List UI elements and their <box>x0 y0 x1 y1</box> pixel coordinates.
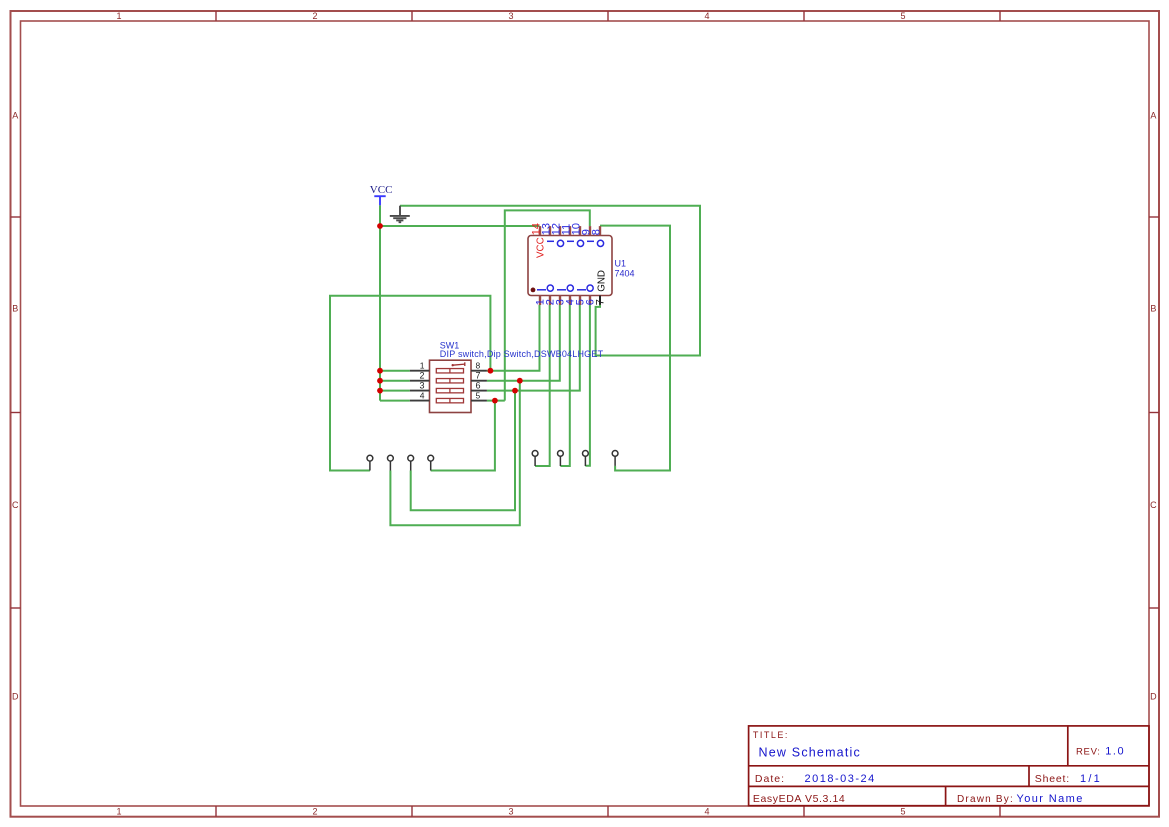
wire U1 pin9 loop to SW1 pin5 <box>505 210 590 400</box>
svg-text:3: 3 <box>508 806 513 816</box>
svg-text:VCC: VCC <box>536 237 547 258</box>
wire VCC to U1 pin14 <box>380 225 540 227</box>
header P3 <box>408 455 414 470</box>
header P8 <box>612 451 618 466</box>
wire header P3 loop to SW1 pin6 junction <box>411 391 515 511</box>
wire SW1 pin5 row <box>487 400 505 402</box>
SW1 right pin stubs <box>471 371 487 401</box>
SW1 switch element 3 <box>436 388 463 392</box>
svg-text:D: D <box>12 692 19 702</box>
frame row ticks right <box>1149 217 1159 608</box>
U1 top inner pin dashes <box>547 240 594 242</box>
svg-text:1: 1 <box>116 806 121 816</box>
svg-text:8: 8 <box>591 229 603 235</box>
svg-text:2: 2 <box>419 371 424 381</box>
wire U1 pin4 to header P6 <box>560 305 569 466</box>
svg-text:2: 2 <box>312 806 317 816</box>
frame row ticks left <box>11 217 21 608</box>
svg-text:C: C <box>12 500 19 510</box>
svg-text:B: B <box>12 304 18 314</box>
U1 pin1 marker dot <box>531 288 536 293</box>
VCC power symbol <box>374 196 385 205</box>
svg-text:1/1: 1/1 <box>1080 773 1102 785</box>
wire VCC vertical bus <box>379 205 381 400</box>
svg-text:3: 3 <box>419 381 424 391</box>
svg-text:U1: U1 <box>615 259 627 269</box>
svg-text:5: 5 <box>900 806 905 816</box>
svg-text:VCC: VCC <box>370 184 393 196</box>
junction dot VCC branch <box>377 223 383 229</box>
header P4 <box>428 455 434 470</box>
ground symbol <box>390 206 410 223</box>
header P5 <box>532 451 538 467</box>
svg-text:2018-03-24: 2018-03-24 <box>805 773 876 785</box>
svg-text:3: 3 <box>508 11 513 21</box>
wire U1 pin6 to header P7 <box>585 305 590 466</box>
wire header P4 to SW1 pin5 junction <box>431 401 495 471</box>
svg-text:GND: GND <box>597 270 608 292</box>
svg-text:B: B <box>1150 304 1156 314</box>
wire SW1 pin6 row to U1 pin5 <box>487 305 580 391</box>
svg-text:TITLE:: TITLE: <box>753 730 789 740</box>
U1 bottom pin stubs <box>540 296 590 306</box>
SW1 switch element 1 <box>436 369 463 373</box>
svg-text:EasyEDA V5.3.14: EasyEDA V5.3.14 <box>753 793 845 805</box>
op-amp U1 body <box>528 236 612 296</box>
svg-text:5: 5 <box>476 391 481 401</box>
frame column numbers bottom <box>116 806 905 816</box>
wire GND net from U1 pin7 to ground <box>400 206 700 356</box>
svg-text:7: 7 <box>476 371 481 381</box>
SW1 switch element 2 <box>436 379 463 383</box>
svg-text:5: 5 <box>900 11 905 21</box>
U1 bottom inverter bubbles <box>547 285 593 291</box>
header P6 <box>558 451 564 467</box>
svg-text:DIP switch,Dip Switch,DSWB04LH: DIP switch,Dip Switch,DSWB04LHGET <box>440 349 604 359</box>
svg-text:C: C <box>1150 500 1157 510</box>
wire SW1 pin8 row to U1 pin1 <box>487 305 540 371</box>
wire VCC to SW1 pin4 <box>380 400 410 402</box>
svg-text:A: A <box>12 111 18 121</box>
U1 bottom inner pin dashes <box>537 289 586 291</box>
svg-text:7: 7 <box>594 299 606 305</box>
svg-text:Date:: Date: <box>755 773 785 785</box>
wire header P1 loop to SW1 pin8 junction <box>330 296 490 471</box>
SW1 left pin stubs <box>410 371 430 401</box>
switch SW1 body <box>430 360 472 412</box>
svg-text:4: 4 <box>420 391 425 401</box>
U1 top inverter bubbles <box>557 240 603 246</box>
junction dot SW1 pin6 net <box>512 388 518 394</box>
svg-text:2: 2 <box>312 11 317 21</box>
U1 pin 7 stub <box>599 296 601 305</box>
junction dot SW1 pin1 <box>377 368 383 374</box>
svg-text:Sheet:: Sheet: <box>1035 773 1070 785</box>
junction dot SW1 pin8 net <box>488 368 494 374</box>
header P7 <box>583 451 589 467</box>
svg-text:New Schematic: New Schematic <box>759 746 861 760</box>
SW1 switch element 4 <box>436 398 463 402</box>
frame column ticks top <box>216 11 1000 21</box>
wire VCC to SW1 pin1 <box>380 370 410 372</box>
junction dot SW1 pin3 <box>377 388 383 394</box>
svg-text:1.0: 1.0 <box>1105 746 1125 758</box>
frame row letters right <box>1150 111 1157 702</box>
svg-text:REV:: REV: <box>1076 747 1101 758</box>
svg-text:4: 4 <box>704 11 709 21</box>
svg-text:7404: 7404 <box>615 268 635 278</box>
svg-text:Drawn By:: Drawn By: <box>957 794 1014 805</box>
wire VCC to SW1 pin3 <box>380 390 410 392</box>
svg-text:D: D <box>1150 692 1157 702</box>
title block box <box>749 726 1149 806</box>
svg-text:8: 8 <box>476 361 481 371</box>
wire header P2 loop to SW1 pin7 junction <box>390 381 519 526</box>
svg-text:1: 1 <box>116 11 121 21</box>
frame column numbers top <box>116 11 905 21</box>
junction dot SW1 pin5 net <box>492 398 498 404</box>
frame column ticks bottom <box>216 806 1000 817</box>
svg-text:6: 6 <box>476 381 481 391</box>
svg-text:4: 4 <box>704 806 709 816</box>
wire SW1 pin7 row to U1 pin3 <box>487 305 560 381</box>
wire VCC to SW1 pin2 <box>380 380 410 382</box>
frame row letters left <box>12 111 19 702</box>
junction dot SW1 pin7 net <box>517 378 523 384</box>
header P1 <box>367 455 373 470</box>
svg-text:Your Name: Your Name <box>1017 793 1084 805</box>
wire U1 pin8 to header P8 <box>600 226 670 471</box>
wire U1 pin2 to header P5 <box>535 305 550 466</box>
svg-text:A: A <box>1150 111 1156 121</box>
header P2 <box>388 455 394 470</box>
U1 top pin stubs <box>540 226 600 235</box>
svg-text:1: 1 <box>420 361 425 371</box>
SW1 lever indicator <box>452 362 465 366</box>
junction dot SW1 pin2 <box>377 378 383 384</box>
